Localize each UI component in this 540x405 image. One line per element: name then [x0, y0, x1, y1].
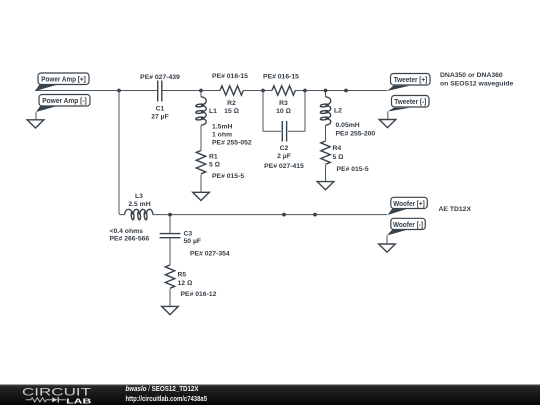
svg-text:10 Ω: 10 Ω [276, 108, 291, 115]
flag Power Amp [+] [35, 73, 89, 91]
wire: C2 parallel branch [263, 91, 305, 132]
svg-text:R2: R2 [227, 100, 236, 107]
resistor R5 [165, 265, 216, 298]
footer bar [0, 385, 540, 405]
svg-text:PE# 027-439: PE# 027-439 [140, 74, 180, 81]
svg-text:PE# 255-052: PE# 255-052 [212, 140, 252, 147]
ground under R5 [162, 306, 179, 314]
ground under Woofer [-] [379, 244, 396, 252]
svg-text:PE# 266-566: PE# 266-566 [110, 236, 150, 243]
inductor L3 [110, 193, 154, 243]
node L3 output junction dot [168, 213, 172, 217]
ground under R4 [317, 182, 334, 190]
wire: main top rail from Power Amp [+] to Tweeter [+] [35, 90, 387, 92]
inductor L2 [320, 97, 375, 138]
node L2 junction dot [324, 89, 328, 93]
svg-text:http://circuitlab.com/c7438a5: http://circuitlab.com/c7438a5 [126, 394, 208, 403]
svg-text:Tweeter [+]: Tweeter [+] [394, 77, 428, 84]
node wire segment dot woofer rail 1 [282, 213, 286, 217]
svg-text:2.5 mH: 2.5 mH [128, 201, 150, 208]
svg-text:L1: L1 [209, 108, 217, 115]
node A junction dot [117, 89, 121, 93]
svg-text:R4: R4 [333, 145, 342, 152]
svg-text:1 ohm: 1 ohm [212, 132, 232, 139]
svg-text:LAB: LAB [66, 396, 91, 405]
ground under Tweeter [-] [379, 120, 396, 128]
svg-text:12 Ω: 12 Ω [178, 280, 193, 287]
ground under Power Amp [-] [27, 120, 44, 128]
svg-text:Power Amp [-]: Power Amp [-] [42, 98, 87, 105]
resistor R1 [196, 151, 244, 181]
svg-text:C2: C2 [280, 145, 289, 152]
svg-text:Woofer [-]: Woofer [-] [393, 222, 423, 229]
svg-text:DNA350 or DNA360: DNA350 or DNA360 [440, 72, 503, 79]
node wire segment dot woofer rail 2 [313, 213, 317, 217]
svg-text:L2: L2 [334, 108, 342, 115]
svg-text:PE# 015-5: PE# 015-5 [212, 173, 244, 180]
svg-text:Power Amp [+]: Power Amp [+] [41, 77, 86, 84]
node L1 junction dot [199, 89, 203, 93]
svg-text:L3: L3 [135, 193, 143, 200]
svg-text:27 µF: 27 µF [151, 114, 169, 121]
svg-text:<0.4 ohms: <0.4 ohms [110, 228, 144, 235]
svg-text:PE# 027-354: PE# 027-354 [190, 251, 230, 258]
svg-text:PE# 016-12: PE# 016-12 [181, 291, 217, 298]
wire: C3/R5 branch verticals [169, 215, 171, 307]
wire: woofer rail from L3 to Woofer [+] [153, 214, 387, 216]
resistor R2 [212, 73, 248, 115]
flag Power Amp [-] [36, 95, 90, 120]
svg-text:R5: R5 [178, 272, 187, 279]
svg-text:R3: R3 [279, 100, 288, 107]
flag Tweeter [+] [387, 74, 430, 92]
resistor R3 [263, 74, 299, 116]
wire: L2 branch verticals [325, 91, 327, 182]
svg-text:PE# 255-200: PE# 255-200 [336, 131, 376, 138]
node R3 right junction dot [303, 89, 307, 93]
node R3 left junction dot [261, 89, 265, 93]
svg-text:2 µF: 2 µF [277, 153, 291, 160]
svg-text:C3: C3 [184, 231, 193, 238]
svg-text:5 Ω: 5 Ω [333, 154, 344, 161]
svg-text:R1: R1 [209, 154, 218, 161]
flag Tweeter [-] [388, 96, 429, 120]
resistor R4 [321, 141, 369, 173]
svg-text:50 µF: 50 µF [184, 238, 202, 245]
svg-text:5 Ω: 5 Ω [209, 162, 220, 169]
svg-text:PE# 016-15: PE# 016-15 [263, 74, 299, 81]
wire: L1 branch verticals [200, 91, 202, 193]
svg-text:Tweeter [-]: Tweeter [-] [394, 99, 426, 106]
flag Woofer [-] [387, 218, 425, 244]
svg-text:PE# 015-5: PE# 015-5 [337, 166, 369, 173]
svg-text:on SEOS12 waveguide: on SEOS12 waveguide [440, 81, 513, 88]
capacitor C1 [140, 74, 180, 121]
node wire segment dot top rail [344, 89, 348, 93]
ground under R1 [193, 192, 210, 200]
flag Woofer [+] [388, 197, 428, 215]
wire: vertical from node A down to L3 [119, 91, 125, 215]
svg-text:AE TD12X: AE TD12X [439, 206, 472, 213]
svg-text:C1: C1 [156, 106, 165, 113]
capacitor C3 [160, 231, 230, 258]
inductor L1 [196, 97, 252, 147]
svg-text:bwaslo / SEOS12_TD12X: bwaslo / SEOS12_TD12X [126, 384, 199, 393]
svg-text:0.05mH: 0.05mH [336, 122, 360, 129]
svg-text:PE# 016-15: PE# 016-15 [212, 73, 248, 80]
svg-text:PE# 027-415: PE# 027-415 [264, 163, 304, 170]
svg-text:Woofer [+]: Woofer [+] [393, 201, 425, 208]
svg-text:15 Ω: 15 Ω [224, 108, 239, 115]
svg-text:1.5mH: 1.5mH [212, 124, 232, 131]
capacitor C2 [264, 121, 304, 170]
